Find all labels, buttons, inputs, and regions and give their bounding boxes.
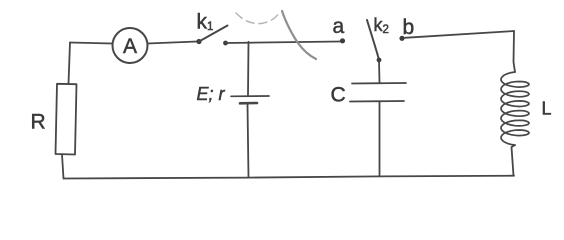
wire capacitor to bottom rail xyxy=(379,102,381,177)
svg-text:k2: k2 xyxy=(374,15,389,36)
wire resistor bottom to rail corner xyxy=(62,155,64,179)
wire top-left horizontal to ammeter xyxy=(70,43,112,44)
switch k1 blade xyxy=(199,26,228,42)
scribble faint arc artifact xyxy=(236,13,278,24)
svg-text:k1: k1 xyxy=(197,11,214,34)
svg-text:A: A xyxy=(123,35,137,58)
scribble dark stroke artifact xyxy=(282,11,316,59)
resistor R body xyxy=(56,84,77,155)
svg-text:E; r: E; r xyxy=(197,84,226,104)
node b junction dot xyxy=(399,36,404,41)
switch k1 left contact dot xyxy=(196,39,201,44)
wire node b to top-right corner xyxy=(405,31,515,38)
wire capacitor top vertical xyxy=(378,60,381,83)
svg-text:L: L xyxy=(542,99,552,119)
wire bottom rail xyxy=(64,176,515,179)
node a junction dot xyxy=(340,38,345,43)
svg-text:C: C xyxy=(331,84,346,107)
battery E short plate xyxy=(240,102,257,105)
capacitor C bottom plate xyxy=(350,100,404,103)
ammeter U1 circle xyxy=(113,28,148,63)
capacitor C top plate xyxy=(352,82,406,85)
wire k1 to node a xyxy=(226,42,341,44)
switch k2 bottom contact dot xyxy=(377,58,382,63)
inductor L coil xyxy=(501,72,529,145)
switch k1 right contact dot xyxy=(223,41,228,46)
wire ammeter to switch k1 xyxy=(148,42,198,44)
battery E long plate xyxy=(231,95,269,97)
svg-text:b: b xyxy=(403,16,415,39)
svg-text:a: a xyxy=(333,15,345,38)
switch k2 blade xyxy=(367,20,379,60)
wire inductor to bottom rail xyxy=(512,145,516,176)
wire left vertical down to resistor xyxy=(69,43,71,84)
wire battery branch vertical top xyxy=(247,42,250,95)
wire right vertical down to inductor xyxy=(514,31,516,72)
wire battery to bottom rail xyxy=(248,105,249,178)
svg-text:R: R xyxy=(31,111,46,134)
